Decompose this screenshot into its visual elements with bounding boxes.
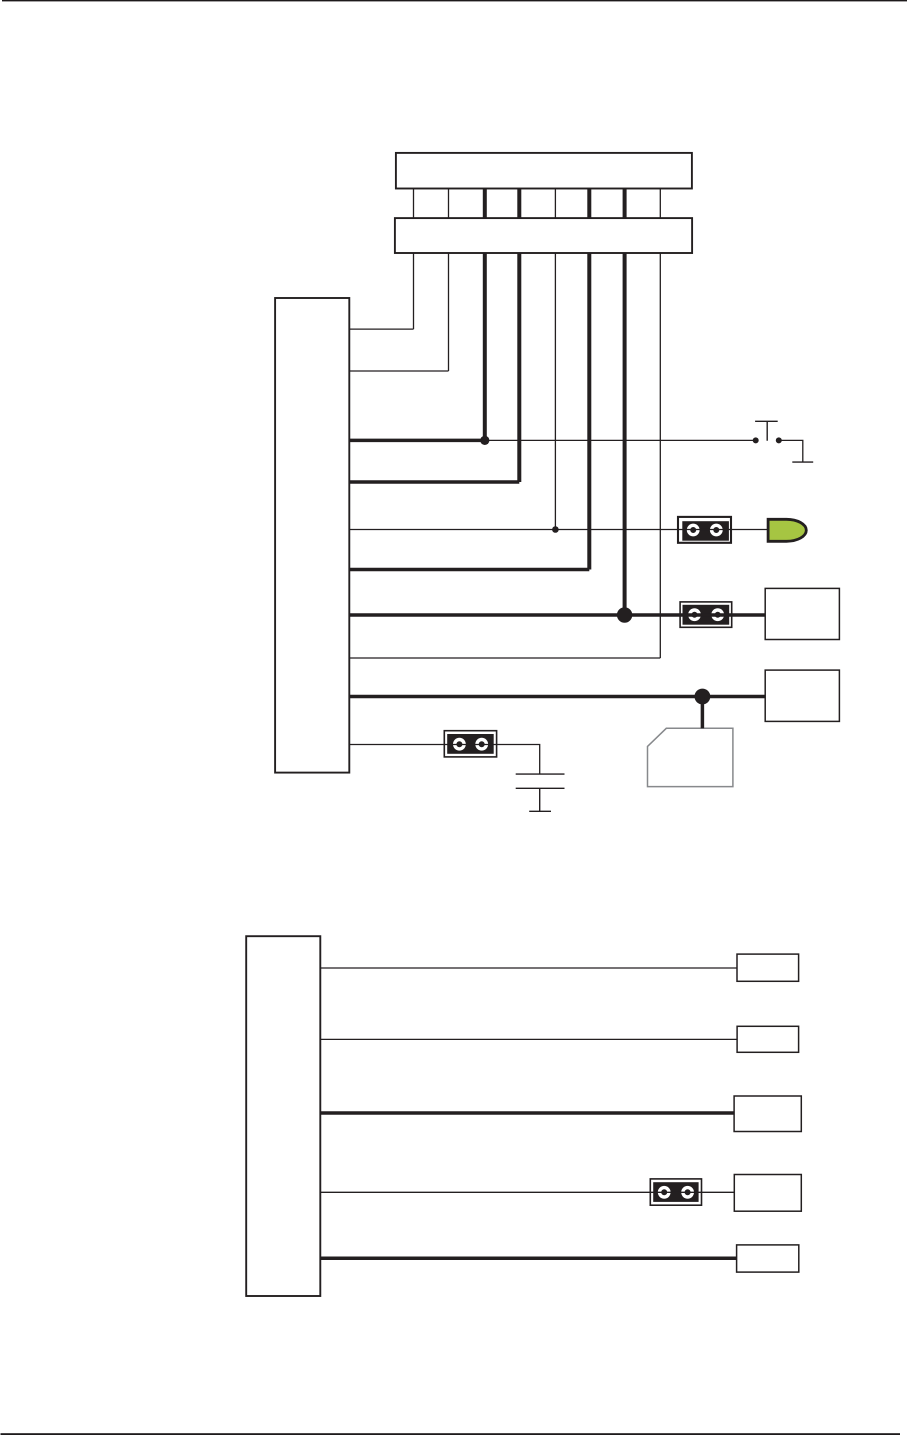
wire 9 (thick): [349, 695, 765, 699]
pin 7: [623, 189, 627, 616]
speaker LS1: [648, 728, 733, 786]
wire B4 (through JP4): [320, 1191, 734, 1193]
pushbutton switch S1: actuator: [755, 421, 778, 440]
LED D1: [768, 519, 806, 541]
pin 2: [448, 189, 450, 372]
pushbutton switch S1: left contact: [753, 437, 759, 443]
MCU box U2 (bottom diagram): [246, 936, 320, 1296]
jumper JP1: [678, 517, 731, 543]
box R2: [765, 670, 839, 721]
node: wire9 junction: [695, 689, 711, 705]
connector header bar J1 (top): [396, 153, 692, 189]
ground: [529, 810, 551, 812]
wire 1: [349, 328, 413, 330]
capacitor C1: [516, 774, 565, 811]
pushbutton switch S1: right contact: [776, 437, 782, 443]
jumper JP3: [444, 731, 496, 757]
box B5: [737, 1245, 799, 1272]
box B4: [734, 1175, 801, 1212]
wire 10 (through JP3 to capacitor): [349, 745, 539, 775]
jumper JP2: [680, 602, 732, 627]
wire B5 (thick): [320, 1256, 736, 1260]
wire 4 (thick): [349, 480, 519, 484]
wire 3 (thick): [349, 439, 485, 443]
controller box U1: [275, 298, 349, 773]
jumper JP4: [650, 1179, 701, 1205]
box B3: [734, 1096, 801, 1132]
node: wire5/pin5 junction: [552, 526, 559, 533]
pin 6: [587, 189, 591, 570]
wire from switch to terminal: [779, 440, 803, 462]
node: wire7/pin7 junction: [617, 607, 632, 622]
pin 3: [483, 189, 487, 441]
wire 7 (thick, through JP2 to box): [349, 613, 765, 617]
box B1: [737, 954, 799, 981]
pin 8: [659, 189, 661, 659]
wire 5 (through JP1 to LED): [349, 529, 768, 531]
box R1: [765, 588, 839, 639]
wire B3 (thick): [320, 1111, 734, 1115]
box B2: [737, 1026, 799, 1052]
pin 5: [554, 189, 556, 530]
wire B2: [320, 1038, 737, 1040]
wire 8: [349, 657, 660, 659]
pin 4: [517, 189, 521, 483]
wire 3 thin continuation to switch: [485, 439, 756, 441]
wire 6 (thick): [349, 568, 589, 572]
wire: stem to speaker: [701, 697, 705, 729]
switch terminal bar: [792, 461, 813, 463]
wire 2: [349, 370, 448, 372]
pin 1: [413, 189, 415, 330]
wire B1: [320, 967, 737, 969]
node: wire3/pin3 junction: [480, 436, 489, 445]
connector header bar J2 (bottom): [395, 218, 692, 253]
